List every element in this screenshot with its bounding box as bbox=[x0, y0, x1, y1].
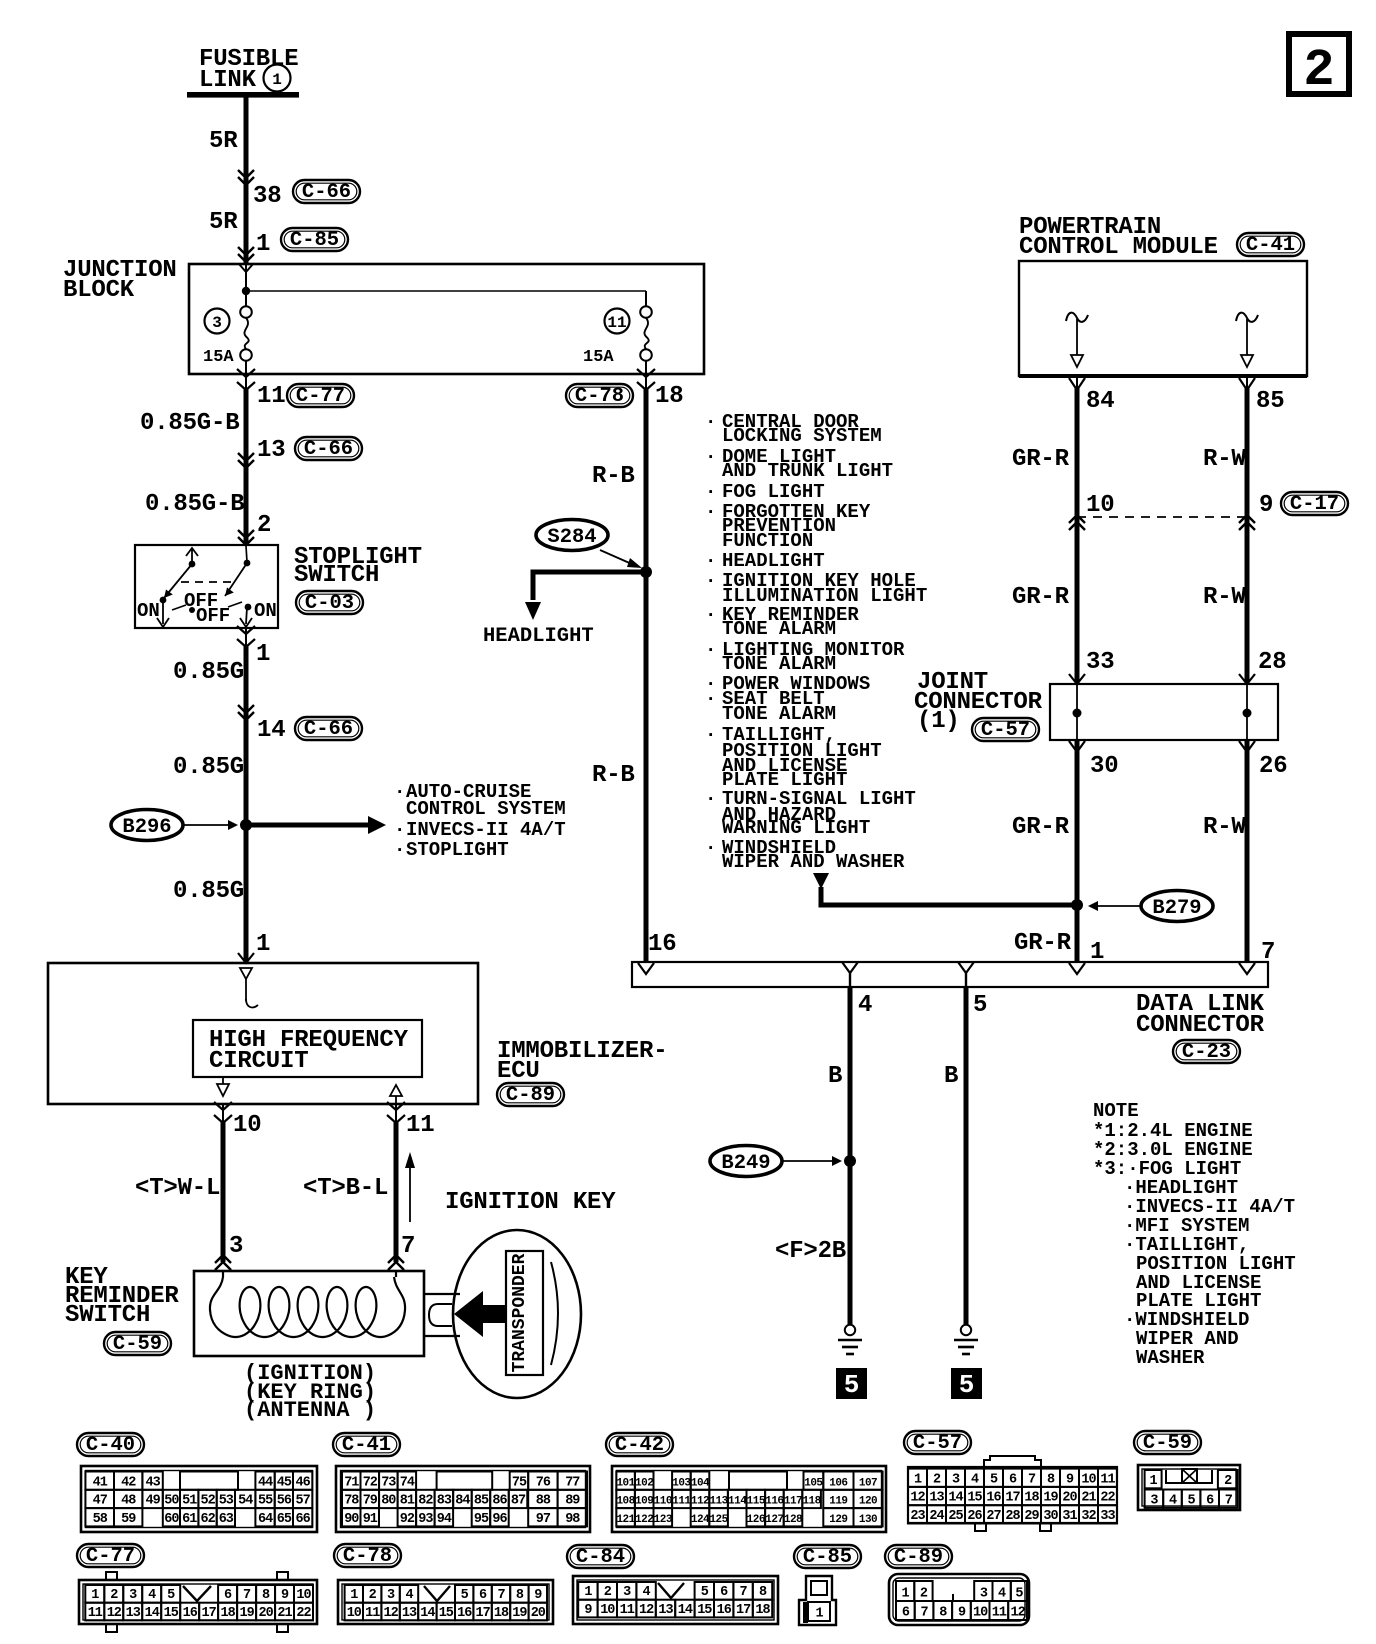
svg-text:4: 4 bbox=[148, 1588, 156, 1603]
fuse 11 circled label bbox=[605, 309, 630, 334]
data link connector name bbox=[1136, 991, 1265, 1039]
svg-text:28: 28 bbox=[1258, 649, 1286, 676]
wire ecu to key switch left bbox=[222, 1104, 224, 1262]
svg-text:116: 116 bbox=[765, 1496, 783, 1508]
dlc pin7 symbol bbox=[1239, 963, 1255, 974]
svg-text:11: 11 bbox=[607, 314, 626, 332]
svg-text:45: 45 bbox=[277, 1475, 292, 1490]
svg-text:12: 12 bbox=[639, 1603, 654, 1618]
fuse 3 circled label bbox=[205, 309, 230, 334]
hf pin 11 triangle bbox=[390, 1085, 402, 1104]
node junction block bus dot bbox=[242, 287, 250, 295]
svg-text:10: 10 bbox=[296, 1588, 311, 1603]
joint connector node right bbox=[1243, 709, 1252, 718]
svg-text:102: 102 bbox=[635, 1477, 653, 1489]
svg-text:C-41: C-41 bbox=[1246, 234, 1295, 257]
stoplight switch right arm bbox=[225, 563, 247, 596]
svg-text:5: 5 bbox=[1015, 1587, 1023, 1602]
svg-text:52: 52 bbox=[200, 1494, 215, 1509]
high frequency circuit label bbox=[209, 1027, 409, 1075]
svg-text:7: 7 bbox=[497, 1588, 505, 1603]
svg-text:TONE ALARM: TONE ALARM bbox=[722, 618, 836, 640]
svg-text:0.85G: 0.85G bbox=[173, 878, 244, 905]
connector capsule C-89 bbox=[497, 1083, 564, 1107]
svg-text:126: 126 bbox=[747, 1514, 765, 1526]
svg-text:WASHER: WASHER bbox=[1136, 1347, 1205, 1369]
svg-text:3: 3 bbox=[980, 1587, 988, 1602]
svg-text:13: 13 bbox=[658, 1603, 673, 1618]
svg-text:11: 11 bbox=[88, 1606, 103, 1621]
fuse 11 symbol bbox=[640, 306, 652, 361]
svg-text:82: 82 bbox=[418, 1494, 433, 1509]
svg-text:TRANSPONDER: TRANSPONDER bbox=[510, 1253, 530, 1372]
svg-text:18: 18 bbox=[755, 1603, 770, 1618]
svg-text:C-66: C-66 bbox=[302, 181, 351, 204]
key reminder switch box bbox=[194, 1271, 424, 1356]
svg-text:33: 33 bbox=[1100, 1509, 1115, 1524]
svg-text:129: 129 bbox=[829, 1514, 847, 1526]
svg-text:73: 73 bbox=[381, 1475, 396, 1490]
svg-text:2: 2 bbox=[920, 1587, 928, 1602]
svg-text:IGNITION KEY: IGNITION KEY bbox=[445, 1189, 616, 1216]
svg-text:16: 16 bbox=[648, 931, 676, 958]
vee into immobilizer ecu bbox=[238, 953, 254, 963]
connector table capsule C-42 bbox=[606, 1433, 673, 1457]
svg-text:115: 115 bbox=[747, 1496, 766, 1508]
svg-text:5: 5 bbox=[1188, 1493, 1196, 1508]
stoplight switch right pole wire bbox=[246, 546, 247, 562]
svg-text:18: 18 bbox=[1024, 1491, 1039, 1506]
svg-text:66: 66 bbox=[295, 1512, 310, 1527]
svg-text:30: 30 bbox=[1043, 1509, 1058, 1524]
connector capsule C-59 label bbox=[104, 1332, 171, 1356]
joint exit chevron 26 bbox=[1239, 741, 1255, 752]
wire pcm 84 to joint connector bbox=[1076, 376, 1078, 684]
svg-text:110: 110 bbox=[654, 1496, 672, 1508]
svg-text:1: 1 bbox=[91, 1588, 99, 1603]
svg-text:11: 11 bbox=[406, 1112, 434, 1139]
connector table capsule C-78 bbox=[334, 1544, 401, 1568]
immobilizer ecu name bbox=[497, 1038, 667, 1085]
svg-text:16: 16 bbox=[457, 1606, 472, 1621]
svg-text:6: 6 bbox=[1009, 1472, 1017, 1487]
pcm pin 84 internal symbol bbox=[1066, 313, 1088, 367]
svg-text:18: 18 bbox=[220, 1606, 235, 1621]
svg-text:5: 5 bbox=[167, 1588, 175, 1603]
svg-text:1: 1 bbox=[272, 71, 282, 89]
svg-text:9: 9 bbox=[1259, 492, 1273, 519]
svg-text:5: 5 bbox=[461, 1588, 469, 1603]
node splice dot S284 bbox=[640, 566, 652, 578]
pcm pin 85 internal symbol bbox=[1236, 313, 1258, 367]
svg-text:122: 122 bbox=[635, 1514, 653, 1526]
wire stoplight switch to immobilizer bbox=[245, 628, 247, 961]
connector capsule C-85 bbox=[281, 228, 348, 252]
svg-text:C-40: C-40 bbox=[86, 1434, 135, 1457]
svg-text:6: 6 bbox=[902, 1606, 910, 1621]
wire fuse3 to box bottom bbox=[245, 360, 247, 389]
svg-text:18: 18 bbox=[655, 383, 683, 410]
headlight branch elbow bbox=[533, 572, 646, 600]
svg-text:29: 29 bbox=[1024, 1509, 1039, 1524]
chevron into joint 33 bbox=[1069, 674, 1085, 684]
svg-text:28: 28 bbox=[1005, 1509, 1020, 1524]
dlc pin1 symbol bbox=[1069, 963, 1085, 974]
chevron c17 left bbox=[1069, 515, 1085, 530]
stoplight switch dashed link bbox=[181, 581, 232, 583]
svg-text:7: 7 bbox=[401, 1233, 415, 1260]
joint connector wire left bbox=[1076, 684, 1078, 740]
svg-text:15A: 15A bbox=[203, 348, 234, 367]
svg-text:·: · bbox=[705, 446, 716, 468]
svg-text:·: · bbox=[705, 550, 716, 572]
stoplight switch mid dot bbox=[189, 607, 195, 613]
svg-text:R-W: R-W bbox=[1203, 584, 1246, 611]
connector capsule C-03 bbox=[296, 591, 363, 615]
svg-text:75: 75 bbox=[512, 1475, 527, 1490]
svg-text:62: 62 bbox=[200, 1512, 215, 1527]
svg-text:·: · bbox=[705, 604, 716, 626]
svg-text:12: 12 bbox=[910, 1491, 925, 1506]
junction block box bbox=[189, 264, 704, 374]
svg-text:<T>B-L: <T>B-L bbox=[303, 1175, 388, 1202]
svg-text:C-66: C-66 bbox=[304, 718, 353, 741]
svg-text:88: 88 bbox=[536, 1494, 551, 1509]
svg-text:C-42: C-42 bbox=[615, 1434, 664, 1457]
svg-text:76: 76 bbox=[536, 1475, 551, 1490]
chevron c17 right bbox=[1239, 515, 1255, 530]
svg-text:5: 5 bbox=[959, 1370, 975, 1400]
svg-text:C-41: C-41 bbox=[342, 1434, 391, 1457]
svg-text:GR-R: GR-R bbox=[1012, 814, 1070, 841]
connector table C-89 bbox=[889, 1574, 1029, 1625]
svg-text:94: 94 bbox=[437, 1512, 452, 1527]
svg-text:C-57: C-57 bbox=[913, 1432, 962, 1455]
svg-text:117: 117 bbox=[784, 1496, 802, 1508]
svg-text:91: 91 bbox=[363, 1512, 378, 1527]
svg-text:5R: 5R bbox=[209, 128, 238, 155]
svg-text:107: 107 bbox=[859, 1477, 877, 1489]
svg-text:R-W: R-W bbox=[1203, 446, 1246, 473]
ground symbol wire4 bbox=[838, 1325, 862, 1354]
pcm exit vee 85 bbox=[1239, 378, 1255, 390]
inline connector chevron 38 bbox=[238, 170, 254, 185]
svg-text:3: 3 bbox=[952, 1472, 960, 1487]
svg-text:15: 15 bbox=[967, 1491, 982, 1506]
svg-text:C-59: C-59 bbox=[1143, 1432, 1192, 1455]
svg-text:(ANTENNA ): (ANTENNA ) bbox=[244, 1398, 376, 1423]
svg-text:C-17: C-17 bbox=[1290, 493, 1339, 516]
svg-text:13: 13 bbox=[126, 1606, 141, 1621]
svg-text:2: 2 bbox=[604, 1585, 612, 1600]
svg-text:14: 14 bbox=[145, 1606, 160, 1621]
svg-text:STOPLIGHT: STOPLIGHT bbox=[406, 839, 509, 861]
svg-text:10: 10 bbox=[347, 1606, 362, 1621]
svg-text:106: 106 bbox=[829, 1477, 847, 1489]
svg-text:121: 121 bbox=[616, 1514, 635, 1526]
chevron into stoplight switch bbox=[238, 530, 254, 545]
junction block entry vee bbox=[239, 264, 253, 272]
stoplight switch left contact arrow bbox=[157, 600, 169, 627]
chevron into junction block bbox=[238, 247, 254, 262]
svg-text:11: 11 bbox=[257, 383, 285, 410]
ignition key ring antenna caption bbox=[244, 1361, 376, 1423]
svg-text:2: 2 bbox=[1303, 41, 1334, 100]
svg-text:5: 5 bbox=[973, 992, 987, 1019]
wire inside junction block right bbox=[645, 291, 647, 307]
system list center bbox=[705, 411, 927, 873]
stoplight switch right contact dot bbox=[245, 604, 252, 611]
pcm exit vee 84 bbox=[1069, 378, 1085, 390]
svg-text:104: 104 bbox=[691, 1477, 710, 1489]
svg-text:1: 1 bbox=[350, 1588, 358, 1603]
ground ref box 5 left bbox=[836, 1368, 867, 1400]
svg-text:C-66: C-66 bbox=[304, 438, 353, 461]
svg-text:124: 124 bbox=[691, 1514, 710, 1526]
svg-text:64: 64 bbox=[258, 1512, 273, 1527]
svg-text:123: 123 bbox=[654, 1514, 673, 1526]
svg-text:B279: B279 bbox=[1152, 897, 1201, 920]
svg-text:59: 59 bbox=[121, 1512, 136, 1527]
svg-text:22: 22 bbox=[296, 1606, 311, 1621]
wire fuse11 to box bottom bbox=[645, 360, 647, 389]
connector table capsule C-89 bbox=[885, 1545, 952, 1569]
svg-text:HEADLIGHT: HEADLIGHT bbox=[483, 625, 594, 648]
svg-text:C-89: C-89 bbox=[894, 1546, 943, 1569]
svg-text:44: 44 bbox=[258, 1475, 273, 1490]
chevron into key switch 7 bbox=[388, 1255, 404, 1270]
svg-text:GR-R: GR-R bbox=[1012, 584, 1070, 611]
svg-text:3: 3 bbox=[623, 1585, 631, 1600]
arrow B279 to node bbox=[1088, 901, 1141, 911]
svg-text:·: · bbox=[705, 570, 716, 592]
svg-text:63: 63 bbox=[219, 1512, 234, 1527]
svg-text:9: 9 bbox=[534, 1588, 542, 1603]
connector table C-57 bbox=[908, 1456, 1117, 1531]
svg-text:61: 61 bbox=[182, 1512, 197, 1527]
svg-text:AND TRUNK LIGHT: AND TRUNK LIGHT bbox=[722, 460, 893, 482]
svg-text:81: 81 bbox=[400, 1494, 415, 1509]
data link connector box bbox=[632, 962, 1268, 987]
connector table capsule C-84 bbox=[567, 1545, 634, 1569]
svg-text:4: 4 bbox=[998, 1587, 1006, 1602]
svg-text:103: 103 bbox=[672, 1477, 691, 1489]
svg-text:5: 5 bbox=[844, 1370, 860, 1400]
svg-text:1: 1 bbox=[256, 231, 270, 258]
fusible link bar bbox=[187, 92, 299, 98]
ground ref box 5 right bbox=[951, 1368, 982, 1400]
svg-text:3: 3 bbox=[229, 1233, 243, 1260]
svg-text:·: · bbox=[705, 411, 716, 433]
connector table capsule C-57 bbox=[904, 1431, 971, 1455]
svg-text:·: · bbox=[394, 839, 405, 861]
splice ellipse B249 bbox=[710, 1146, 782, 1177]
svg-text:6: 6 bbox=[1206, 1493, 1214, 1508]
svg-text:92: 92 bbox=[400, 1512, 415, 1527]
svg-text:10: 10 bbox=[233, 1112, 261, 1139]
svg-text:0.85G-B: 0.85G-B bbox=[145, 491, 244, 518]
svg-text:20: 20 bbox=[1062, 1491, 1077, 1506]
svg-text:51: 51 bbox=[182, 1494, 197, 1509]
immobilizer ecu pin terminal symbol bbox=[240, 968, 258, 1007]
connector table capsule C-40 bbox=[77, 1433, 144, 1457]
svg-text:ECU: ECU bbox=[497, 1058, 540, 1085]
connector table C-84 bbox=[573, 1576, 778, 1624]
svg-text:C-89: C-89 bbox=[506, 1084, 555, 1107]
svg-text:4: 4 bbox=[643, 1585, 651, 1600]
fuse 3 symbol bbox=[240, 306, 252, 361]
svg-text:8: 8 bbox=[516, 1588, 524, 1603]
svg-text:C-59: C-59 bbox=[113, 1333, 162, 1356]
transponder arrow bbox=[454, 1291, 507, 1337]
svg-text:·: · bbox=[705, 724, 716, 746]
connector capsule C-41 label bbox=[1237, 233, 1304, 257]
svg-text:83: 83 bbox=[437, 1494, 452, 1509]
svg-text:74: 74 bbox=[400, 1475, 415, 1490]
svg-text:9: 9 bbox=[584, 1603, 592, 1618]
ground wire 5 bbox=[964, 987, 969, 1325]
connector capsule C-66 top bbox=[293, 180, 360, 204]
svg-text:93: 93 bbox=[418, 1512, 433, 1527]
svg-text:19: 19 bbox=[1043, 1491, 1058, 1506]
svg-text:7: 7 bbox=[740, 1585, 748, 1600]
connector capsule C-77 bbox=[287, 384, 354, 408]
svg-text:4: 4 bbox=[405, 1588, 413, 1603]
svg-text:17: 17 bbox=[201, 1606, 216, 1621]
stoplight switch left contact dot bbox=[160, 597, 167, 604]
svg-text:42: 42 bbox=[121, 1475, 136, 1490]
wire fusible link to junction block bbox=[244, 97, 249, 263]
svg-text:17: 17 bbox=[475, 1606, 490, 1621]
svg-text:111: 111 bbox=[672, 1496, 691, 1508]
svg-text:CONTROL SYSTEM: CONTROL SYSTEM bbox=[406, 798, 566, 820]
svg-text:21: 21 bbox=[277, 1606, 292, 1621]
svg-text:11: 11 bbox=[620, 1603, 635, 1618]
svg-text:8: 8 bbox=[939, 1606, 947, 1621]
svg-text:C-85: C-85 bbox=[803, 1546, 852, 1569]
svg-text:27: 27 bbox=[986, 1509, 1001, 1524]
svg-text:C-77: C-77 bbox=[86, 1545, 135, 1568]
svg-text:17: 17 bbox=[1005, 1491, 1020, 1506]
svg-text:23: 23 bbox=[910, 1509, 925, 1524]
immobilizer ecu box bbox=[48, 963, 478, 1104]
hf pin 10 triangle bbox=[217, 1077, 229, 1096]
wire ecu to key switch right bbox=[395, 1104, 397, 1262]
svg-text:·: · bbox=[394, 781, 405, 803]
branch arrow to systems bbox=[246, 816, 386, 834]
arrow B249 to node bbox=[783, 1156, 842, 1166]
svg-text:OFF: OFF bbox=[196, 605, 230, 627]
inline connector chevron 13 bbox=[238, 453, 254, 468]
page number box 2 bbox=[1289, 34, 1349, 100]
connector table capsule C-77 bbox=[77, 1544, 144, 1568]
svg-text:96: 96 bbox=[492, 1512, 507, 1527]
svg-text:7: 7 bbox=[1028, 1472, 1036, 1487]
joint connector node left bbox=[1073, 709, 1082, 718]
fusible link circled 1 bbox=[264, 65, 291, 92]
svg-text:21: 21 bbox=[1081, 1491, 1096, 1506]
splice ellipse B279 bbox=[1141, 891, 1213, 922]
splice ellipse S284 bbox=[536, 520, 608, 551]
svg-text:·: · bbox=[705, 688, 716, 710]
svg-text:4: 4 bbox=[1169, 1493, 1177, 1508]
svg-text:41: 41 bbox=[93, 1475, 108, 1490]
svg-text:25: 25 bbox=[948, 1509, 963, 1524]
svg-text:R-W: R-W bbox=[1203, 814, 1246, 841]
wire junction block to stoplight switch bbox=[244, 388, 249, 544]
stoplight switch box bbox=[135, 545, 278, 628]
svg-text:113: 113 bbox=[709, 1496, 728, 1508]
svg-text:14: 14 bbox=[948, 1491, 963, 1506]
svg-text:16: 16 bbox=[183, 1606, 198, 1621]
svg-text:FUNCTION: FUNCTION bbox=[722, 530, 813, 552]
svg-text:3: 3 bbox=[212, 314, 222, 332]
svg-text:7: 7 bbox=[243, 1588, 251, 1603]
ignition key head ellipse bbox=[453, 1230, 581, 1398]
svg-text:C-78: C-78 bbox=[343, 1545, 392, 1568]
connector capsule C-57 label bbox=[972, 718, 1039, 742]
stoplight switch right pole dot bbox=[244, 560, 251, 567]
splice ellipse B296 bbox=[111, 810, 183, 841]
chevron below stoplight switch bbox=[237, 626, 255, 647]
svg-text:LOCKING SYSTEM: LOCKING SYSTEM bbox=[722, 425, 882, 447]
svg-text:98: 98 bbox=[565, 1512, 580, 1527]
svg-text:2: 2 bbox=[257, 512, 271, 539]
connector table capsule C-85 bbox=[794, 1545, 861, 1569]
svg-text:15: 15 bbox=[439, 1606, 454, 1621]
svg-text:INVECS-II 4A/T: INVECS-II 4A/T bbox=[406, 819, 566, 841]
svg-text:95: 95 bbox=[474, 1512, 489, 1527]
svg-text:128: 128 bbox=[784, 1514, 803, 1526]
svg-text:B: B bbox=[828, 1063, 842, 1090]
key reminder switch name bbox=[65, 1264, 179, 1329]
dlc pin5 symbol bbox=[958, 962, 974, 987]
svg-text:78: 78 bbox=[344, 1494, 359, 1509]
svg-text:33: 33 bbox=[1086, 649, 1114, 676]
transponder box bbox=[506, 1251, 543, 1375]
svg-text:·: · bbox=[705, 639, 716, 661]
svg-text:85: 85 bbox=[474, 1494, 489, 1509]
svg-text:54: 54 bbox=[238, 1494, 253, 1509]
svg-text:20: 20 bbox=[531, 1606, 546, 1621]
svg-text:<F>2B: <F>2B bbox=[775, 1238, 846, 1265]
svg-text:NOTE: NOTE bbox=[1093, 1100, 1139, 1122]
key head inner arc bbox=[551, 1262, 558, 1365]
system list pointer triangle bbox=[813, 873, 829, 889]
systems list right of arrow bbox=[394, 781, 566, 861]
svg-text:19: 19 bbox=[512, 1606, 527, 1621]
key ring antenna coil bbox=[210, 1271, 405, 1337]
svg-text:16: 16 bbox=[986, 1491, 1001, 1506]
arrow S284 to node bbox=[600, 550, 642, 568]
svg-text:22: 22 bbox=[1100, 1491, 1115, 1506]
connector table C-77 bbox=[79, 1572, 317, 1632]
svg-text:8: 8 bbox=[1047, 1472, 1055, 1487]
fusible link label bbox=[199, 46, 298, 94]
svg-text:6: 6 bbox=[224, 1588, 232, 1603]
svg-text:C-78: C-78 bbox=[575, 385, 624, 408]
key blade bbox=[424, 1294, 460, 1336]
svg-text:5: 5 bbox=[990, 1472, 998, 1487]
svg-text:1: 1 bbox=[902, 1587, 910, 1602]
headlight branch arrowhead bbox=[525, 602, 541, 620]
svg-text:2: 2 bbox=[110, 1588, 118, 1603]
svg-text:9: 9 bbox=[958, 1606, 966, 1621]
svg-text:26: 26 bbox=[1259, 753, 1287, 780]
svg-text:7: 7 bbox=[1225, 1493, 1233, 1508]
svg-text:3: 3 bbox=[129, 1588, 137, 1603]
svg-text:13: 13 bbox=[257, 437, 285, 464]
